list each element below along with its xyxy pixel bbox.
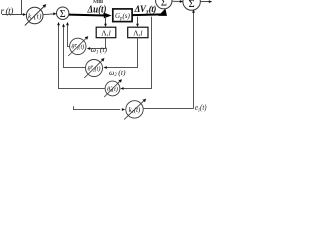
wire k to sum1 bbox=[43, 13, 54, 16]
wire omega1 from filter A to gain theta1 bbox=[89, 38, 105, 49]
svg-text:Δu(t): Δu(t) bbox=[87, 4, 107, 15]
wire theta2 output to sum1 bbox=[64, 26, 86, 68]
svg-text:ω2 (t): ω2 (t) bbox=[109, 68, 126, 78]
filter box B (Lambda,l) bbox=[128, 27, 148, 38]
thick arrow into top sum A bbox=[158, 9, 167, 16]
wire r tap up bbox=[21, 0, 23, 15]
wire tap down to filter B bbox=[137, 17, 139, 25]
svg-text:Σ: Σ bbox=[161, 0, 167, 9]
svg-text:Σ: Σ bbox=[60, 9, 66, 20]
wire k1 output to e1 corner bbox=[143, 108, 193, 110]
wire VT tap down to theta0 bbox=[123, 17, 152, 89]
summing junction S1 bbox=[57, 7, 69, 19]
svg-text:Λ,l: Λ,l bbox=[101, 29, 110, 38]
wire e1 feedback vertical bbox=[193, 11, 195, 109]
wire sum1 to plant (thick) bbox=[69, 14, 105, 17]
summing junction top A bbox=[156, 0, 172, 9]
svg-text:Λ,l: Λ,l bbox=[133, 29, 142, 38]
svg-text:ω1 (t): ω1 (t) bbox=[91, 45, 108, 55]
wire output right bbox=[200, 1, 210, 3]
svg-text:θ̂T1(t): θ̂T1(t) bbox=[71, 44, 84, 51]
filter box A (Lambda,l) bbox=[96, 27, 116, 38]
svg-text:e1(t): e1(t) bbox=[195, 103, 207, 114]
wire tap down to filter A bbox=[105, 17, 107, 25]
gain theta1 bbox=[70, 38, 86, 54]
gain k1(t) bbox=[126, 101, 143, 118]
wire omega2 from filter B to gain theta2 bbox=[106, 38, 138, 68]
svg-text:Σ: Σ bbox=[189, 0, 195, 10]
wire sumA to sumB bbox=[172, 0, 181, 2]
wire theta1 output to sum1 bbox=[68, 24, 70, 46]
gain theta0 bbox=[105, 81, 120, 96]
wire r input bbox=[2, 14, 24, 16]
gain theta2 bbox=[86, 60, 103, 77]
wire theta0 output to sum1 bbox=[59, 24, 106, 88]
gain k(t) bbox=[26, 7, 43, 24]
summing junction top B bbox=[183, 0, 200, 10]
wire stub into k1 bbox=[74, 106, 121, 109]
wire plant output (thick) bbox=[133, 13, 163, 16]
plant box Gp(s) bbox=[113, 9, 132, 22]
svg-text:Gp(s): Gp(s) bbox=[115, 12, 131, 21]
svg-text:k (t): k (t) bbox=[28, 12, 42, 20]
